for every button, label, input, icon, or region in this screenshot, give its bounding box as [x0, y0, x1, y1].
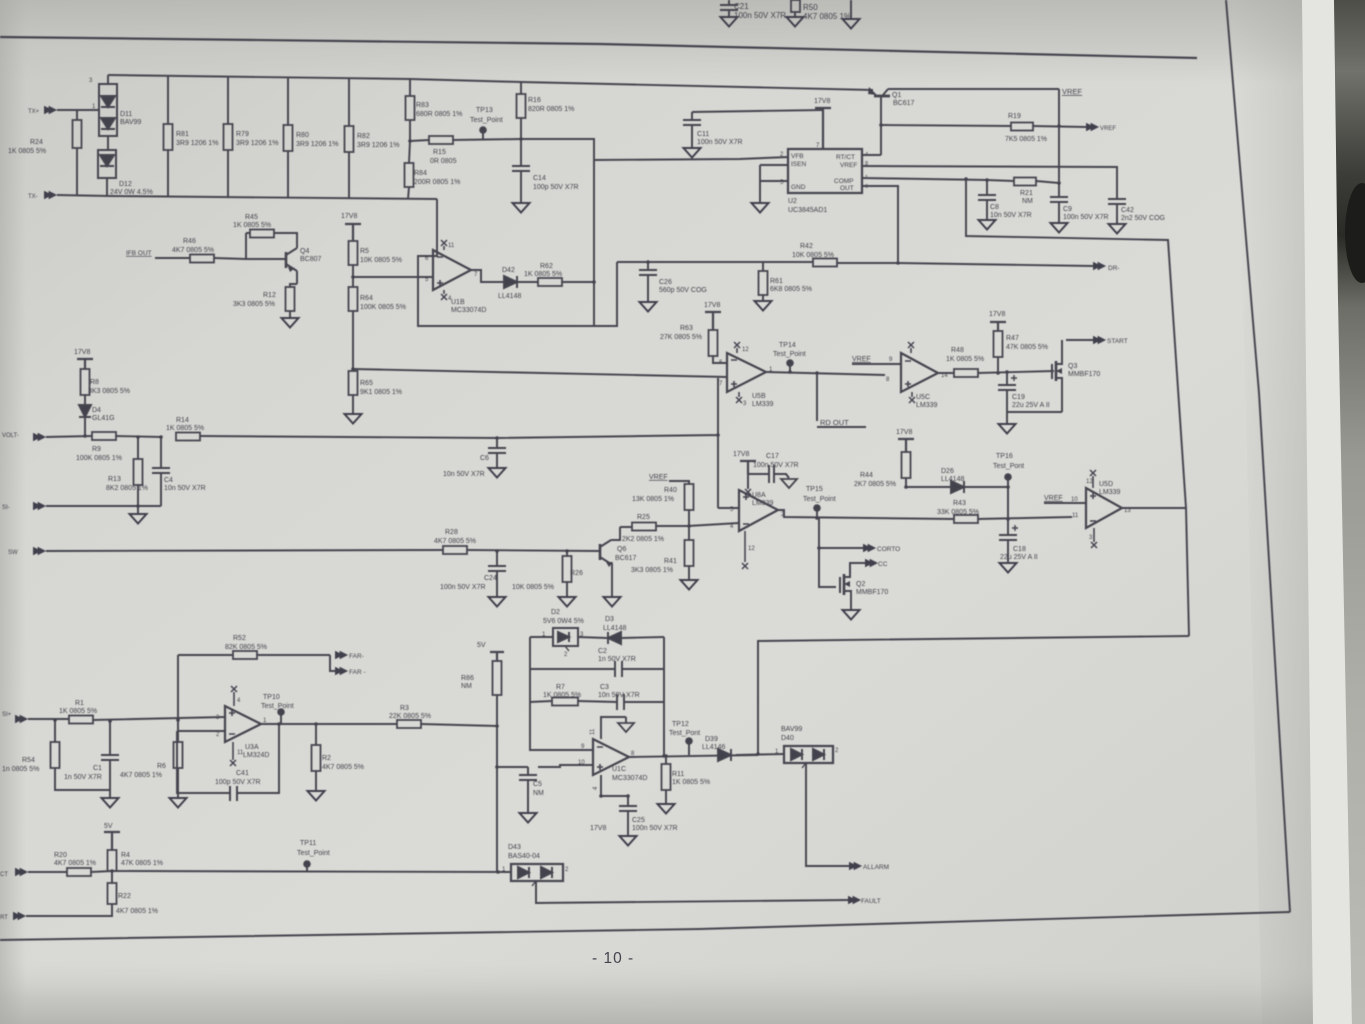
svg-text:200R 0805 1%: 200R 0805 1% [414, 179, 460, 186]
svg-text:17V8: 17V8 [74, 349, 90, 356]
power stub 17V8 (R44) [896, 429, 914, 452]
svg-text:12: 12 [748, 546, 755, 552]
resistor R79 [224, 77, 279, 198]
svg-text:FAR-: FAR- [349, 653, 364, 660]
svg-text:24V 0W 4.5%: 24V 0W 4.5% [110, 189, 153, 196]
svg-text:9K1 0805 1%: 9K1 0805 1% [360, 389, 402, 396]
resistor R3 [389, 705, 497, 728]
resistor R83 [406, 79, 463, 141]
svg-text:2K7 0805 5%: 2K7 0805 5% [854, 481, 896, 488]
svg-text:GL41G: GL41G [92, 415, 115, 422]
svg-text:100n 50V X7R: 100n 50V X7R [697, 139, 743, 146]
svg-text:R47: R47 [1006, 335, 1019, 342]
op-amp U3A LM324D [216, 686, 269, 766]
svg-text:Q6: Q6 [617, 546, 626, 553]
svg-text:R15: R15 [433, 149, 446, 156]
resistor R80 [284, 77, 339, 198]
svg-text:1n 0805 5%: 1n 0805 5% [2, 766, 39, 773]
output arrow VREF [1086, 123, 1116, 132]
svg-text:C19: C19 [1012, 394, 1025, 401]
capacitor C24 [440, 551, 506, 607]
resistor R1 [59, 700, 225, 724]
IC U2 UC3845AD1 [780, 149, 868, 214]
svg-text:TP12: TP12 [672, 721, 689, 728]
wire to C5 / U1C pin10 [497, 765, 593, 767]
power stub 17V8 (C17) [733, 451, 756, 474]
test point TP10 [261, 694, 294, 723]
svg-text:DR-: DR- [1108, 265, 1120, 272]
resistor R25 [620, 514, 688, 543]
svg-text:12: 12 [1086, 479, 1093, 485]
resistor R64 [349, 277, 406, 369]
resistor R81 [164, 76, 219, 197]
svg-text:R82: R82 [357, 133, 370, 140]
svg-text:MMBF170: MMBF170 [1068, 371, 1100, 378]
U1B output wire [471, 270, 504, 282]
output arrow START [1066, 336, 1128, 345]
transistor Q2 MMBF170 [819, 548, 888, 620]
svg-text:4K7 0805 1%: 4K7 0805 1% [116, 908, 158, 915]
resistor R84 [405, 141, 461, 199]
capacitor C26 [639, 262, 707, 312]
zener D12 [98, 150, 153, 196]
wire U2 OUT down to R42 line [862, 186, 898, 263]
svg-text:C6: C6 [480, 455, 489, 462]
resistor R8 [81, 369, 131, 405]
svg-text:10: 10 [578, 760, 585, 766]
svg-text:10K 0805 5%: 10K 0805 5% [512, 584, 554, 591]
svg-text:R50: R50 [803, 3, 818, 12]
svg-text:R86: R86 [461, 675, 474, 682]
svg-text:TP10: TP10 [263, 694, 280, 701]
svg-text:Test_Point: Test_Point [803, 496, 836, 503]
svg-text:100n 50V X7R: 100n 50V X7R [440, 584, 486, 591]
power stub 17V8 for U2 [814, 98, 831, 149]
resistor R22 [26, 871, 158, 916]
svg-text:1K 0805 5%: 1K 0805 5% [543, 692, 581, 699]
svg-text:R48: R48 [951, 347, 964, 354]
svg-text:6K8 0805 5%: 6K8 0805 5% [770, 286, 812, 293]
svg-text:6: 6 [865, 184, 868, 190]
wire COMP pin1 [862, 178, 1014, 181]
svg-text:R12: R12 [263, 292, 276, 299]
svg-text:LL4148: LL4148 [498, 293, 521, 300]
resistor R46 [172, 238, 246, 263]
svg-text:C41: C41 [236, 770, 249, 777]
long wire R64/R65 node to U5B pin7 [353, 369, 727, 377]
svg-text:3R9 1206 1%: 3R9 1206 1% [296, 141, 338, 148]
svg-text:4K7 0805 5%: 4K7 0805 5% [322, 764, 364, 771]
resistor R47 [994, 331, 1049, 372]
svg-text:NM: NM [1022, 198, 1033, 205]
diode D3 LL4148 [578, 616, 664, 644]
svg-text:4K7 0805 1%: 4K7 0805 1% [54, 860, 96, 867]
resistor R28 [434, 529, 597, 554]
svg-text:RT/CT: RT/CT [836, 154, 855, 161]
svg-text:R13: R13 [108, 476, 121, 483]
net label VREF to U5D pin10 [1044, 495, 1086, 519]
svg-text:R4: R4 [121, 852, 130, 859]
svg-text:LM339: LM339 [1099, 489, 1121, 496]
svg-text:CC: CC [878, 561, 888, 568]
svg-text:3R9 1206 1%: 3R9 1206 1% [236, 140, 278, 147]
svg-text:R44: R44 [860, 472, 873, 479]
diode D39 LL4146 [702, 736, 731, 761]
svg-text:R84: R84 [414, 170, 427, 177]
wire bottom bus down to U1B pin6 loop [433, 199, 437, 256]
svg-text:LM339: LM339 [752, 401, 774, 408]
svg-text:D39: D39 [705, 736, 718, 743]
svg-text:C18: C18 [1013, 546, 1026, 553]
input (R22 row) [0, 912, 26, 921]
power stub 17V8 (R47) [989, 311, 1006, 331]
svg-text:U3A: U3A [245, 744, 259, 751]
output arrow ALLARM [806, 763, 889, 871]
svg-text:ISEN: ISEN [791, 161, 806, 168]
svg-text:3K3 0805 1%: 3K3 0805 1% [631, 567, 673, 574]
input SI- [2, 502, 161, 511]
svg-text:13K 0805 1%: 13K 0805 1% [632, 496, 674, 503]
svg-text:4K7 0805 1%: 4K7 0805 1% [120, 772, 162, 779]
capacitor C18 (polarized) [999, 519, 1038, 573]
net RD OUT stub [817, 373, 866, 427]
svg-text:4K7 0805 5%: 4K7 0805 5% [434, 538, 476, 545]
svg-text:R80: R80 [296, 132, 309, 139]
svg-text:R5: R5 [360, 248, 369, 255]
resistor R50 [787, 0, 852, 27]
svg-text:100p 50V X7R: 100p 50V X7R [215, 779, 261, 786]
power stub 5V (R86) [477, 642, 504, 661]
svg-text:R65: R65 [360, 380, 373, 387]
svg-text:D11: D11 [120, 111, 132, 118]
svg-text:LM324D: LM324D [243, 752, 269, 759]
top bus wire to Q1 [410, 79, 873, 90]
svg-text:17V8: 17V8 [733, 451, 749, 458]
svg-text:C25: C25 [632, 817, 645, 824]
svg-text:NM: NM [533, 790, 544, 797]
svg-text:100n 50V X7R: 100n 50V X7R [734, 11, 786, 20]
svg-text:OUT: OUT [840, 185, 854, 192]
capacitor C14 [512, 139, 579, 213]
svg-text:R2: R2 [322, 755, 331, 762]
schematic frame: bottom border [0, 912, 1290, 940]
svg-text:100n 50V X7R: 100n 50V X7R [753, 462, 799, 469]
svg-text:BC617: BC617 [615, 555, 637, 562]
svg-text:R28: R28 [445, 529, 458, 536]
diode D42 LL4148 [498, 267, 538, 300]
diode D26 LL4148 [906, 468, 1008, 493]
svg-text:17V8: 17V8 [704, 302, 720, 309]
svg-text:D42: D42 [502, 267, 515, 274]
resistor R6 [120, 720, 187, 808]
transistor Q6 BC617 [597, 527, 637, 607]
svg-text:R24: R24 [30, 139, 43, 146]
svg-text:82K 0805 5%: 82K 0805 5% [225, 644, 267, 651]
op-amp U5C LM339 [901, 342, 948, 409]
U1C output wire [629, 755, 758, 757]
resistor R13 [106, 437, 148, 506]
power stub 17V8 (R63) [704, 302, 721, 330]
wire C14 node to U2 pin2 (VFB net) [521, 139, 789, 326]
svg-text:R11: R11 [672, 771, 684, 778]
svg-text:LM339: LM339 [916, 402, 938, 409]
svg-text:- 10 -: - 10 - [592, 950, 634, 967]
svg-text:R19: R19 [1008, 113, 1021, 120]
svg-text:C9: C9 [1063, 206, 1072, 213]
wire big loop left segment (U5D/COMP net down to D40) [758, 636, 1189, 754]
svg-text:R26: R26 [570, 570, 583, 577]
right vertical [663, 637, 665, 756]
output arrow FAULT [536, 881, 881, 905]
net label VREF (R40) [649, 474, 689, 484]
input VOLT- [2, 433, 92, 441]
resistor R52 [178, 635, 330, 659]
svg-text:RD OUT: RD OUT [820, 418, 849, 427]
resistor R14 [166, 417, 497, 441]
svg-text:1K 0805 5%: 1K 0805 5% [233, 222, 271, 229]
power stub 17V8 (R8) [74, 349, 93, 369]
output arrow DR- [898, 262, 1120, 272]
svg-text:D3: D3 [605, 616, 614, 623]
svg-text:11: 11 [448, 243, 455, 249]
svg-text:100n 50V X7R: 100n 50V X7R [632, 825, 678, 832]
svg-text:R54: R54 [22, 757, 35, 764]
U1C bottom power pin to 17V8 [590, 775, 628, 832]
wire R5 node to U1B pin5 [353, 276, 433, 278]
svg-text:R20: R20 [54, 852, 67, 859]
test point TP16 [993, 453, 1024, 519]
svg-text:R16: R16 [528, 97, 541, 104]
svg-text:R42: R42 [800, 243, 813, 250]
dual diode D40 BAV99 [736, 726, 839, 768]
svg-text:2K2 0805 1%: 2K2 0805 1% [622, 536, 664, 543]
svg-text:R25: R25 [637, 514, 650, 521]
capacitor C42 [1108, 199, 1165, 234]
resistor R42 [617, 243, 898, 267]
svg-text:5V6 0W4 5%: 5V6 0W4 5% [543, 618, 584, 625]
svg-text:FAULT: FAULT [861, 898, 881, 905]
resistor R20 [54, 852, 511, 876]
svg-text:Test_Point: Test_Point [773, 351, 806, 358]
resistor R7 [530, 684, 617, 706]
svg-text:Q1: Q1 [892, 92, 901, 99]
svg-text:BC617: BC617 [893, 100, 915, 107]
svg-text:1K 0805 5%: 1K 0805 5% [166, 425, 204, 432]
svg-text:U2: U2 [788, 198, 797, 205]
svg-text:VREF: VREF [840, 162, 857, 169]
dual diode D43 BAS40-04 [502, 844, 569, 886]
svg-text:C2: C2 [598, 648, 607, 655]
svg-text:C42: C42 [1121, 207, 1134, 214]
wire Q1 emitter down to RT/CT [862, 97, 881, 155]
resistor R61 [755, 263, 813, 311]
svg-text:R21: R21 [1020, 190, 1033, 197]
svg-text:R40: R40 [664, 487, 677, 494]
input TX- [28, 191, 109, 200]
capacitor C21 [720, 0, 786, 27]
svg-text:U5C: U5C [916, 394, 930, 401]
svg-text:22u 25V A II: 22u 25V A II [1012, 402, 1050, 409]
svg-text:VREF: VREF [1062, 87, 1082, 96]
svg-text:BAS40-04: BAS40-04 [508, 853, 540, 860]
svg-text:NM: NM [461, 683, 472, 690]
U5D output wire [1122, 507, 1186, 509]
svg-text:R3: R3 [400, 705, 409, 712]
op-amp U1B MC33074D [425, 240, 486, 314]
op-amp U5B LM339 [719, 342, 774, 408]
capacitor C6 [443, 438, 506, 478]
svg-text:33K 0805 5%: 33K 0805 5% [937, 509, 979, 516]
svg-text:IFB OUT: IFB OUT [126, 250, 152, 257]
svg-text:C3: C3 [600, 684, 609, 691]
resistor R48 [938, 347, 1054, 377]
svg-text:1K 0805 5%: 1K 0805 5% [946, 356, 984, 363]
capacitor C17 [748, 453, 799, 488]
schematic frame: right border [1226, 0, 1290, 912]
svg-text:47K 0805 1%: 47K 0805 1% [121, 860, 163, 867]
svg-text:R64: R64 [360, 295, 373, 302]
output arrow CC [850, 559, 888, 577]
bottom bus wire [109, 196, 437, 199]
capacitor C19 (polarized) [998, 372, 1050, 434]
resistor R54 [2, 720, 110, 790]
svg-text:27K 0805 5%: 27K 0805 5% [660, 334, 702, 341]
resistor R82 [345, 78, 400, 199]
svg-text:R79: R79 [236, 131, 249, 138]
svg-text:COMP: COMP [834, 178, 854, 185]
node vertical R3/C5/D43 [496, 726, 498, 872]
svg-text:47K 0805 5%: 47K 0805 5% [1006, 344, 1048, 351]
node VREF vertical [1058, 89, 1060, 197]
svg-text:R7: R7 [556, 684, 565, 691]
input (R20 row) [0, 868, 67, 878]
capacitor C25 [619, 806, 678, 846]
test point TP15 [803, 486, 836, 518]
resistor R21 NM [1014, 178, 1059, 206]
output arrow CORTO [817, 518, 900, 553]
wire VREF pin8 to C42 [862, 166, 1117, 199]
test point TP14 [773, 342, 806, 372]
svg-text:BAV99: BAV99 [120, 119, 141, 126]
dual diode D11 BAV99 [89, 75, 141, 150]
capacitor C9 [1050, 197, 1109, 233]
wire Q1 collector to VREF corner [888, 88, 1059, 90]
ground below R13/C4 [130, 506, 147, 524]
svg-text:SI-: SI- [2, 505, 10, 511]
svg-text:MC33074D: MC33074D [612, 775, 647, 782]
svg-text:TX-: TX- [28, 194, 38, 200]
resistor R4 [108, 850, 164, 871]
svg-text:GND: GND [791, 184, 806, 191]
svg-text:Q4: Q4 [300, 248, 309, 255]
svg-text:R43: R43 [953, 500, 966, 507]
svg-text:3K3 0805 5%: 3K3 0805 5% [233, 301, 275, 308]
svg-text:C26: C26 [659, 279, 672, 286]
test point TP13 [470, 107, 503, 139]
svg-text:680R 0805 1%: 680R 0805 1% [416, 111, 462, 118]
svg-text:VREF: VREF [1100, 126, 1116, 132]
svg-text:10K 0805 5%: 10K 0805 5% [360, 257, 402, 264]
svg-text:R46: R46 [183, 238, 196, 245]
ground for U2 GND/ISEN [752, 165, 790, 213]
svg-text:CT: CT [0, 872, 8, 878]
svg-text:R8: R8 [90, 379, 99, 386]
capacitor C1 [64, 721, 119, 808]
capacitor C8 [978, 180, 1032, 230]
svg-text:U1C: U1C [612, 766, 626, 773]
svg-text:2n2 50V COG: 2n2 50V COG [1121, 215, 1165, 222]
svg-text:D26: D26 [941, 468, 954, 475]
svg-text:Q3: Q3 [1068, 363, 1077, 370]
svg-text:10n 50V X7R: 10n 50V X7R [443, 471, 485, 478]
svg-text:3R9 1206 1%: 3R9 1206 1% [176, 140, 218, 147]
svg-text:LL4148: LL4148 [603, 625, 626, 632]
svg-text:R63: R63 [680, 325, 693, 332]
top bus wire [108, 75, 410, 79]
svg-text:22K 0805 5%: 22K 0805 5% [389, 713, 431, 720]
resistor R86 NM [461, 661, 502, 726]
svg-text:D43: D43 [508, 844, 521, 851]
svg-text:R41: R41 [664, 558, 677, 565]
svg-text:Test_Point: Test_Point [297, 850, 330, 857]
svg-text:8K2 0805 1%: 8K2 0805 1% [106, 485, 148, 492]
net label IFB OUT [126, 250, 190, 258]
wire U8A pin5 from vertical [718, 507, 739, 509]
svg-text:R45: R45 [245, 214, 258, 221]
svg-text:10: 10 [1071, 497, 1078, 503]
svg-text:10n 50V X7R: 10n 50V X7R [990, 212, 1032, 219]
svg-text:D4: D4 [92, 407, 101, 414]
svg-text:CORTO: CORTO [877, 546, 900, 553]
resistor R41 [631, 526, 698, 590]
svg-text:C14: C14 [533, 175, 546, 182]
capacitor C4 [152, 437, 206, 506]
svg-text:R62: R62 [540, 263, 553, 270]
svg-text:VOLT-: VOLT- [2, 433, 19, 439]
wire R52 tap down to U3A input node [177, 655, 179, 720]
power stub 5V (R4) [104, 823, 120, 850]
svg-text:R61: R61 [770, 278, 783, 285]
svg-text:Test_Pont: Test_Pont [993, 463, 1024, 470]
op-amp U5D LM339 [1086, 470, 1131, 548]
svg-text:Q2: Q2 [856, 581, 865, 588]
resistor R12 [233, 284, 299, 328]
svg-text:Test_Pont: Test_Pont [669, 730, 700, 737]
resistor R44 [854, 452, 911, 488]
svg-text:MC33074D: MC33074D [451, 307, 486, 314]
svg-text:1n 50V X7R: 1n 50V X7R [64, 774, 102, 781]
svg-text:12: 12 [742, 347, 749, 353]
output arrow FAR- (1) [335, 651, 364, 660]
svg-text:R83: R83 [416, 102, 429, 109]
svg-text:D40: D40 [781, 735, 794, 742]
svg-text:UC3845AD1: UC3845AD1 [788, 207, 827, 214]
svg-text:100p 50V X7R: 100p 50V X7R [533, 184, 579, 191]
wire COMP node down and right (to lower section) [966, 179, 1189, 636]
svg-text:VREF: VREF [852, 356, 871, 363]
U3A output wire [261, 723, 397, 725]
svg-text:D12: D12 [119, 181, 132, 188]
wire 17V8 down to U8A power pin [747, 474, 749, 489]
svg-text:22u 25V A II: 22u 25V A II [1000, 554, 1038, 561]
svg-text:U5B: U5B [752, 393, 766, 400]
transistor Q3 MMBF170 [1007, 340, 1100, 412]
svg-text:START: START [1107, 338, 1128, 345]
svg-text:4K7 0805 5%: 4K7 0805 5% [172, 247, 214, 254]
svg-text:1K 0805 5%: 1K 0805 5% [59, 708, 97, 715]
svg-text:U1B: U1B [451, 299, 465, 306]
svg-text:FAR -: FAR - [349, 669, 366, 676]
